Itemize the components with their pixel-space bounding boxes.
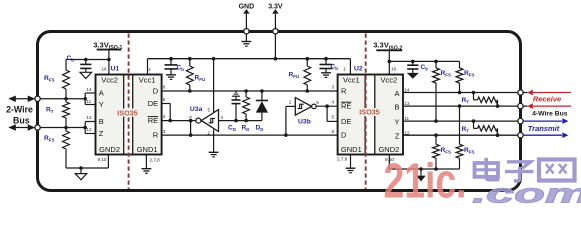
wire U3a gnd xyxy=(209,130,219,157)
wire U2 GND2 run xyxy=(389,155,459,170)
wire U3a input node xyxy=(219,119,262,123)
svg-text:4: 4 xyxy=(332,99,335,104)
svg-text:3.3V: 3.3V xyxy=(268,4,283,11)
svg-text:6: 6 xyxy=(163,84,166,89)
junction rail dots xyxy=(169,57,328,61)
svg-text:14: 14 xyxy=(86,87,92,92)
svg-text:U1: U1 xyxy=(111,66,120,73)
label U2 xyxy=(354,66,363,73)
pin digits U1 bottom xyxy=(98,157,161,163)
arrow transmit Y xyxy=(523,118,568,124)
svg-text:Vcc2: Vcc2 xyxy=(381,76,398,85)
ground U2 GND1 xyxy=(346,155,356,173)
junction RFU-right wire1 xyxy=(306,89,310,93)
resistor RFS left-bottom xyxy=(44,128,69,169)
pin digits U3b xyxy=(289,100,320,105)
pin digits U1 right xyxy=(163,84,166,134)
svg-text:16: 16 xyxy=(102,67,108,72)
svg-text:2-Wire: 2-Wire xyxy=(6,105,33,115)
label ISO35 U2 over xyxy=(359,108,381,117)
node GND entry xyxy=(244,29,249,34)
resistor RFU right xyxy=(289,59,311,91)
wire B xyxy=(403,105,521,107)
node 3.3V entry xyxy=(273,29,278,34)
pin digits U3a xyxy=(189,108,223,136)
pin digits U2 bottom xyxy=(337,157,394,163)
wire Z xyxy=(403,134,521,136)
wire A xyxy=(403,92,521,94)
svg-text:DE: DE xyxy=(341,117,351,126)
svg-text:Bus: Bus xyxy=(13,116,30,126)
svg-text:A: A xyxy=(99,89,104,98)
resistor RT left xyxy=(46,99,69,128)
node A xyxy=(518,90,523,95)
label U1 xyxy=(111,66,120,73)
svg-text:3: 3 xyxy=(221,115,224,120)
svg-text:12: 12 xyxy=(86,127,92,132)
svg-text:D: D xyxy=(341,131,347,140)
node Z xyxy=(518,133,523,138)
svg-text:Vcc1: Vcc1 xyxy=(343,76,360,85)
capacitor Cb logic-left xyxy=(165,59,185,80)
svg-text:6: 6 xyxy=(332,129,335,134)
wire left gnd run xyxy=(66,155,108,169)
wire U2 RE-DE bracket xyxy=(325,104,337,121)
pin digits U1 left xyxy=(86,87,92,132)
svg-text:2: 2 xyxy=(208,130,211,135)
svg-text:GND: GND xyxy=(239,4,255,11)
label ISO35 U1 over xyxy=(117,108,139,117)
svg-text:.com: .com xyxy=(472,179,581,206)
arrow transmit Z xyxy=(523,132,568,138)
ground U1 GND1 xyxy=(142,155,152,174)
ground iso1 bottom xyxy=(75,168,87,180)
svg-text:GND1: GND1 xyxy=(137,145,158,154)
wire U3a vcc xyxy=(213,59,215,112)
svg-text:Receive: Receive xyxy=(533,95,561,104)
capacitor Cb logic-right xyxy=(320,59,339,78)
svg-text:GND2: GND2 xyxy=(378,145,399,154)
svg-text:GND1: GND1 xyxy=(341,145,362,154)
op-amp U1 ISO35 chip xyxy=(96,75,162,155)
svg-text:RE: RE xyxy=(148,116,158,125)
ground iso2 arrow xyxy=(416,169,426,181)
svg-text:Transmit: Transmit xyxy=(528,124,560,133)
svg-text:13: 13 xyxy=(86,115,92,120)
op-amp U2 ISO35 chip xyxy=(338,75,403,155)
svg-text:Vcc1: Vcc1 xyxy=(139,76,156,85)
wire B-Z bracket xyxy=(83,122,95,134)
junction RFS wire1L xyxy=(64,97,68,101)
isolation barrier 1 xyxy=(128,34,130,190)
resistor RD xyxy=(242,89,250,132)
wire2 R-D xyxy=(162,134,338,136)
wire Y xyxy=(403,120,521,122)
label 2-Wire Bus xyxy=(6,105,33,126)
wire1 D-R xyxy=(162,90,338,92)
resistor RFS right-3 xyxy=(433,133,451,169)
svg-text:3: 3 xyxy=(163,129,166,134)
pin labels U1 inside xyxy=(99,87,159,140)
capacitor CD xyxy=(228,92,241,132)
svg-text:3: 3 xyxy=(332,84,335,89)
svg-text:B: B xyxy=(99,117,104,126)
wire U2 pin1 drop xyxy=(343,59,350,75)
junction left gnd xyxy=(79,166,83,170)
svg-text:4-Wire Bus: 4-Wire Bus xyxy=(532,111,568,118)
capacitor Cb iso1 xyxy=(67,55,92,79)
svg-text:Vcc2: Vcc2 xyxy=(101,76,118,85)
resistor RT right-bottom xyxy=(462,119,500,137)
ground below GND terminal xyxy=(242,31,252,46)
resistor RFS left-top xyxy=(44,70,69,99)
svg-text:ISO35: ISO35 xyxy=(117,108,137,117)
svg-text:R: R xyxy=(341,87,347,96)
svg-text:R: R xyxy=(153,131,159,140)
svg-text:U3b: U3b xyxy=(298,119,311,126)
arrow bus B xyxy=(8,124,35,130)
svg-text:DE: DE xyxy=(148,99,158,108)
GND terminal xyxy=(239,4,255,32)
wire iso2 branch xyxy=(388,60,460,68)
svg-text:4: 4 xyxy=(163,114,166,119)
svg-text:5: 5 xyxy=(163,97,166,102)
junction RT wire2L xyxy=(64,126,68,130)
svg-text:U2: U2 xyxy=(354,66,363,73)
resistor RFS right-1 xyxy=(433,61,451,122)
pin labels U2 inside xyxy=(341,87,400,141)
svg-text:ISO35: ISO35 xyxy=(359,108,379,117)
svg-text:9,10: 9,10 xyxy=(98,157,107,162)
svg-text:1: 1 xyxy=(289,100,292,105)
wire 2-wire bus A xyxy=(38,98,86,100)
svg-text:16: 16 xyxy=(391,67,397,72)
svg-text:2,7,8: 2,7,8 xyxy=(150,158,161,163)
wire RE drop to wire2 xyxy=(189,119,193,137)
wire 3.3V down to rail xyxy=(274,31,276,58)
wire U3b out to U2 xyxy=(316,105,337,107)
isolation barrier 2 xyxy=(365,34,367,190)
svg-text:1: 1 xyxy=(148,67,151,72)
svg-text:B: B xyxy=(394,103,399,112)
pin digit U2 16 xyxy=(391,67,397,72)
label Transmit xyxy=(528,124,560,133)
diode DD xyxy=(256,89,269,132)
resistor RFU left xyxy=(186,59,205,91)
junction RFU-left wire1 xyxy=(188,89,192,93)
arrow receive B xyxy=(523,103,571,109)
op-amp U3b inverter xyxy=(295,98,316,126)
arrow bus A xyxy=(8,96,35,102)
pin digits U2 right xyxy=(404,88,410,136)
svg-text:D: D xyxy=(153,87,159,96)
resistor RT right-top xyxy=(462,91,500,108)
svg-text:21ic.: 21ic. xyxy=(384,155,467,206)
svg-text:GND2: GND2 xyxy=(99,145,120,154)
3.3V ISO-2 supply xyxy=(373,41,402,75)
svg-text:Z: Z xyxy=(395,131,400,140)
svg-text:RE: RE xyxy=(341,102,351,111)
svg-text:4: 4 xyxy=(189,114,192,119)
junction gnd2 dots xyxy=(419,167,438,171)
wire iso1 branch xyxy=(66,58,111,70)
op-amp U3a inverter xyxy=(190,106,219,132)
wire A-Y bracket xyxy=(83,93,95,105)
wire U1 DE-RE bracket xyxy=(162,104,196,123)
wire 2-wire bus B xyxy=(38,127,86,129)
resistor RFS right-2 xyxy=(456,68,474,94)
svg-text:11: 11 xyxy=(86,99,91,104)
svg-text:Z: Z xyxy=(99,129,104,138)
wire 3.3V rail xyxy=(148,58,351,60)
3.3V terminal xyxy=(268,4,283,32)
svg-text:Y: Y xyxy=(99,100,104,109)
svg-text:1: 1 xyxy=(343,67,346,72)
wire U1 pin1 drop xyxy=(148,59,152,75)
svg-text:U3a: U3a xyxy=(190,106,203,113)
watermark 21ic.com xyxy=(384,155,581,209)
capacitor Cb iso2 xyxy=(407,61,428,78)
svg-text:5: 5 xyxy=(208,108,211,113)
svg-text:A: A xyxy=(394,89,399,98)
3.3V ISO-1 supply xyxy=(93,40,122,74)
svg-text:14: 14 xyxy=(404,88,410,93)
wire U3b input xyxy=(284,106,295,137)
pin digits U2 left xyxy=(332,84,335,134)
svg-text:2,7,8: 2,7,8 xyxy=(337,157,348,162)
label Receive xyxy=(533,95,561,104)
label 4-Wire Bus xyxy=(532,111,568,118)
arrow receive A xyxy=(523,90,571,96)
node bus B xyxy=(35,125,40,130)
system boundary box xyxy=(38,32,521,191)
node bus A xyxy=(35,96,40,101)
svg-text:6: 6 xyxy=(316,100,319,105)
node B xyxy=(518,103,523,108)
node Y xyxy=(518,118,523,123)
label ISO35 U1 xyxy=(0,0,1,1)
resistor RFS right-4 xyxy=(456,104,474,169)
svg-text:Y: Y xyxy=(394,117,399,126)
svg-text:5: 5 xyxy=(332,115,335,120)
